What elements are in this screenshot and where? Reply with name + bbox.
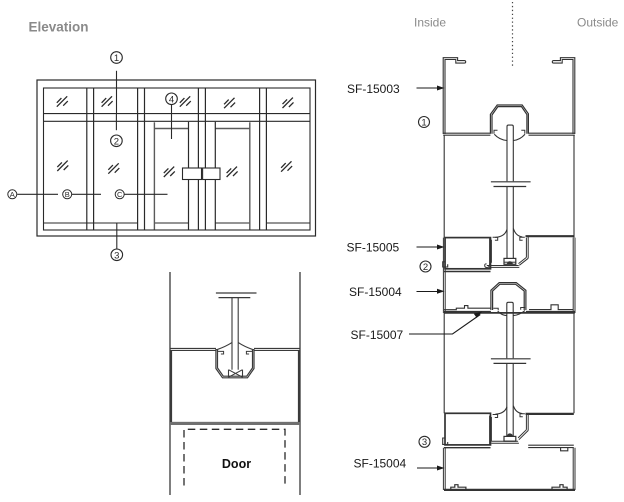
transom face left <box>170 348 216 350</box>
svg-text:C: C <box>117 190 123 199</box>
svg-text:SF-15003: SF-15003 <box>347 82 400 96</box>
section wall right thin segments <box>573 135 575 413</box>
svg-text:B: B <box>65 190 70 199</box>
dashed door outline <box>184 429 285 485</box>
sill bottom hook left <box>451 485 466 490</box>
glass hatches main band <box>57 161 68 171</box>
setting block under glass 1 <box>504 258 516 264</box>
transom rail bottom line <box>44 120 311 122</box>
glass pane 1 <box>507 125 513 258</box>
sill pocket web <box>491 441 519 443</box>
transom clamp SF-15005 left box <box>445 238 491 269</box>
gasket curves <box>217 343 254 350</box>
head bottom face left <box>443 132 490 134</box>
svg-text:3: 3 <box>114 250 119 261</box>
transom face right <box>254 348 300 350</box>
transom dome inner <box>493 284 525 310</box>
section wall left thin segments <box>443 135 445 413</box>
head profile SF-15003 left wall outer <box>443 58 466 134</box>
head pocket hooks <box>494 130 525 134</box>
sill pocket right lip hook <box>520 414 525 417</box>
DOOR HEAD DETAIL (bottom-left) <box>170 272 300 495</box>
section wall left double segments <box>443 238 445 490</box>
transom outside top edge <box>526 235 574 237</box>
sill pocket left lip hook <box>493 415 498 418</box>
svg-text:4: 4 <box>169 94 174 105</box>
sill pocket right wall <box>526 413 528 430</box>
head glazing dome inner <box>492 107 527 134</box>
sill upper gasket left <box>495 407 507 414</box>
door handle left <box>183 168 202 180</box>
svg-text:1: 1 <box>421 117 426 128</box>
transom pocket left lip hook <box>493 237 498 240</box>
svg-text:Outside: Outside <box>577 16 619 30</box>
head glazing dome outer <box>490 105 528 134</box>
ref circle 4 <box>166 93 178 139</box>
door leaf2 right stile <box>249 122 251 229</box>
section ref circle 3 <box>419 436 430 447</box>
glass pane <box>231 298 233 370</box>
transom pocket diagonal <box>519 257 529 265</box>
setting block under glass 2 <box>504 436 516 441</box>
head left wall inner <box>445 60 460 135</box>
glass break 2 <box>491 359 531 364</box>
pocket hooks <box>218 351 253 354</box>
transom pocket right wall <box>526 237 528 258</box>
centerline dotted <box>512 2 514 67</box>
transom pocket web <box>487 266 520 268</box>
transom bottom line <box>444 312 575 314</box>
ref circle B <box>63 190 101 199</box>
wall hook at transom left <box>443 262 448 267</box>
transom pocket left curl <box>485 264 490 268</box>
svg-text:Door: Door <box>222 457 251 471</box>
right wall line <box>299 272 301 495</box>
svg-text:2: 2 <box>423 262 428 273</box>
door leaf1 right stile <box>188 122 190 230</box>
ref circle 2 <box>111 114 123 148</box>
transom dome lip hooks <box>493 308 525 311</box>
head bottom face right <box>529 132 575 134</box>
sill bottom hook right <box>552 485 567 490</box>
door handle right <box>203 168 220 180</box>
glass break symbol <box>216 292 257 294</box>
section wall right double segments <box>573 238 575 490</box>
section ref circle 2 <box>420 261 431 272</box>
glazing U-pocket inner <box>218 349 253 376</box>
door leaf1 head rail <box>154 128 188 130</box>
transom pocket right lip hook <box>520 237 525 240</box>
transom bottom thick line <box>170 422 300 425</box>
glass break 1 <box>491 182 531 187</box>
svg-text:3: 3 <box>422 437 427 448</box>
head right wall outer <box>552 58 575 134</box>
transom body SF-15004 dome outer <box>491 283 526 310</box>
sill outside bottom double <box>528 445 574 447</box>
svg-text:2: 2 <box>114 136 119 147</box>
sill pocket diagonal <box>518 430 528 440</box>
svg-text:SF-15004: SF-15004 <box>349 285 402 299</box>
wall hook at sill left <box>443 438 448 444</box>
transom lower gasket right <box>513 311 525 316</box>
sill channel SF-15004 bottom <box>444 489 575 491</box>
glazing U-pocket outer <box>216 349 254 378</box>
door leaf2 left stile <box>214 122 216 230</box>
svg-text:Inside: Inside <box>414 16 446 30</box>
svg-text:A: A <box>10 190 15 199</box>
mullion M1 <box>86 88 88 230</box>
head right wall inner <box>559 60 574 135</box>
transom rail top line <box>44 113 311 115</box>
hook below right bottom <box>561 448 568 451</box>
ref circle 1 <box>111 52 123 113</box>
left wall line <box>169 272 171 495</box>
ref circle 3 <box>111 223 123 261</box>
transom upper gasket right <box>513 229 522 237</box>
transom body box <box>171 350 299 423</box>
glass hatches top band <box>57 96 68 106</box>
door leaf2 head rail <box>215 128 250 130</box>
sill rail line <box>44 222 311 224</box>
head gasket right <box>513 134 525 140</box>
svg-text:1: 1 <box>114 53 119 64</box>
svg-text:SF-15004: SF-15004 <box>354 457 407 471</box>
sill pocket left wall <box>490 416 492 445</box>
transom body face right <box>526 305 575 312</box>
inner frame <box>44 88 311 230</box>
sill upper gasket right <box>513 406 522 414</box>
svg-text:SF-15007: SF-15007 <box>351 328 404 342</box>
transom pocket left wall <box>490 238 492 264</box>
head gasket left <box>494 134 507 140</box>
transom upper gasket left <box>495 230 507 238</box>
door leaf1 left stile <box>153 122 155 229</box>
mullion M3 / door meeting stiles <box>197 88 199 230</box>
svg-text:Elevation: Elevation <box>29 20 89 35</box>
sill clamp left box <box>445 413 491 445</box>
mullion M4 <box>259 88 261 230</box>
section ref circle 1 <box>419 117 430 128</box>
transom lower gasket left <box>498 311 507 315</box>
ref circle A <box>8 190 58 199</box>
gasket X block <box>229 370 243 378</box>
outer frame <box>37 80 316 236</box>
transom body face left <box>444 306 491 312</box>
sill outside top edge <box>526 413 574 415</box>
svg-text:SF-15005: SF-15005 <box>347 241 400 255</box>
mullion M2 <box>137 88 139 230</box>
glass pane 2 <box>507 302 513 436</box>
ref circle C <box>115 190 167 199</box>
